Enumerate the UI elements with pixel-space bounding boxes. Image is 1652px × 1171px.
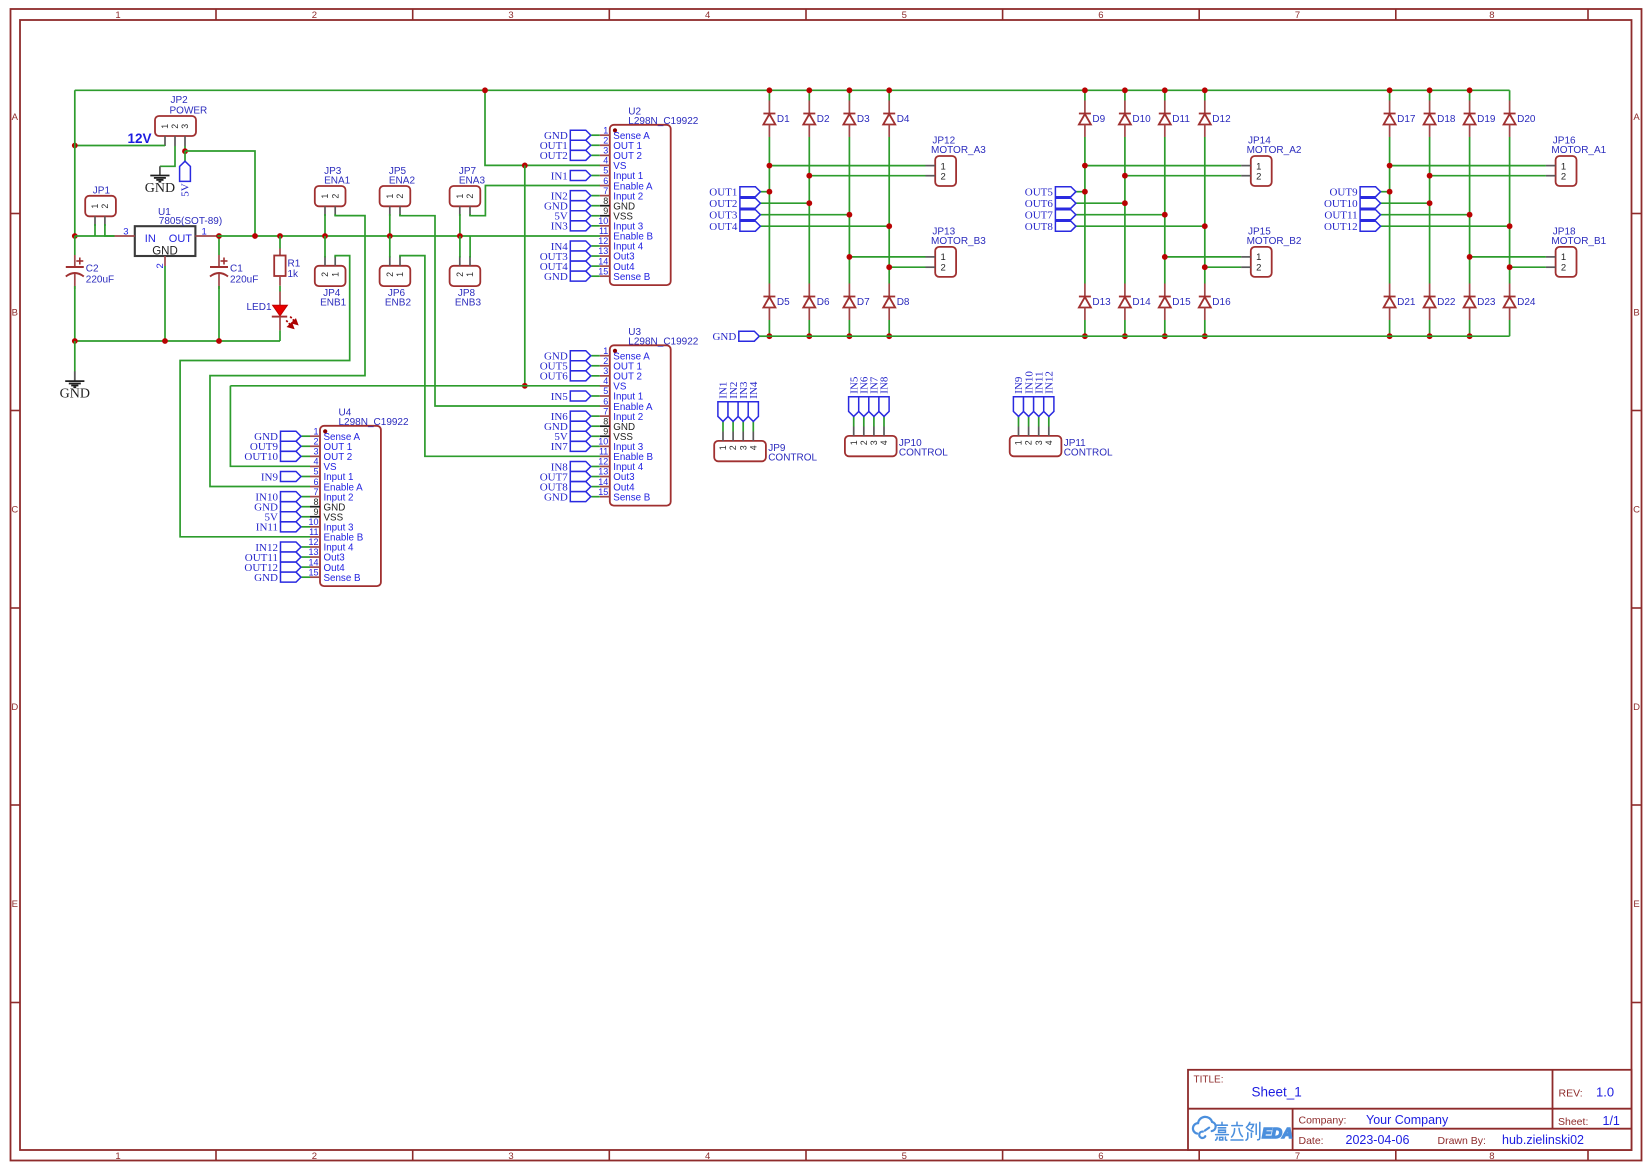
svg-text:IN12: IN12	[1044, 371, 1056, 394]
diode D18	[1429, 101, 1431, 114]
wire	[760, 225, 889, 227]
wire	[760, 191, 769, 193]
wire	[1028, 427, 1030, 436]
svg-text:1: 1	[395, 272, 405, 277]
connector JP13 MOTOR_B3	[935, 247, 956, 277]
wire	[1125, 175, 1241, 177]
junction	[1202, 264, 1208, 270]
junction	[1467, 254, 1473, 260]
wire	[760, 214, 849, 216]
junction	[1387, 189, 1393, 195]
svg-text:12: 12	[308, 537, 318, 547]
svg-text:1: 1	[455, 194, 465, 199]
svg-text:2: 2	[385, 272, 395, 277]
pin 4 of U3	[600, 385, 610, 387]
node GND	[570, 201, 591, 211]
diode D24	[1509, 284, 1511, 297]
svg-text:ENA1: ENA1	[324, 175, 351, 186]
svg-text:ENB3: ENB3	[455, 298, 482, 309]
capacitor C2	[74, 255, 76, 267]
svg-text:Date:: Date:	[1299, 1135, 1324, 1147]
svg-text:D22: D22	[1437, 297, 1456, 308]
node IN11	[1034, 397, 1044, 417]
svg-text:5: 5	[603, 386, 608, 396]
junction	[1162, 333, 1168, 339]
svg-text:3: 3	[123, 226, 128, 237]
wire	[591, 365, 600, 367]
wire	[591, 275, 600, 277]
wire	[185, 151, 255, 236]
wire	[1076, 191, 1085, 193]
diode D23	[1469, 284, 1471, 297]
ground	[150, 175, 169, 177]
junction	[387, 233, 393, 239]
svg-text:JP1: JP1	[93, 185, 111, 196]
connector JP4 ENB1	[315, 266, 346, 286]
wire	[888, 320, 890, 336]
junction	[252, 233, 258, 239]
pin 1 of U2	[600, 134, 610, 136]
node OUT7	[1055, 210, 1076, 220]
wire	[302, 475, 311, 477]
junction	[72, 233, 78, 239]
wire	[1429, 90, 1431, 100]
svg-text:7: 7	[313, 487, 318, 497]
wire	[459, 236, 461, 258]
node IN7	[570, 441, 591, 451]
svg-text:4: 4	[879, 440, 889, 445]
wire	[1204, 137, 1206, 284]
node IN6	[859, 397, 869, 417]
wire	[808, 320, 810, 336]
svg-text:ENA2: ENA2	[389, 175, 416, 186]
junction	[216, 338, 222, 344]
node OUT3	[570, 251, 591, 261]
svg-text:LED1: LED1	[246, 302, 271, 313]
pin 11 of U2	[600, 235, 610, 237]
svg-text:8: 8	[1489, 1151, 1494, 1162]
wire	[302, 435, 311, 437]
wire	[302, 455, 311, 457]
IC U3 L298N_C19922	[610, 345, 671, 505]
wire	[1164, 90, 1166, 100]
svg-text:D8: D8	[897, 297, 910, 308]
svg-text:8: 8	[603, 416, 608, 426]
wire 12V to U2 VS	[485, 90, 600, 165]
svg-text:1: 1	[385, 194, 395, 199]
wire	[1165, 256, 1241, 258]
wire	[74, 371, 76, 381]
connector JP12 MOTOR_A3	[935, 156, 956, 186]
svg-text:D9: D9	[1092, 114, 1105, 125]
svg-text:3: 3	[869, 440, 879, 445]
svg-text:GND: GND	[544, 271, 568, 283]
connector JP5 ENA2	[380, 186, 411, 206]
wire	[591, 435, 600, 437]
pin 6 of U3	[600, 405, 610, 407]
svg-text:3: 3	[1034, 440, 1044, 445]
node 5V	[180, 161, 191, 181]
diode D9	[1084, 101, 1086, 114]
wire	[853, 427, 855, 436]
svg-text:4: 4	[1044, 440, 1054, 445]
wire	[302, 566, 311, 568]
wire	[591, 486, 600, 488]
wire	[591, 144, 600, 146]
svg-text:OUT5: OUT5	[1025, 187, 1054, 199]
svg-text:IN8: IN8	[879, 376, 891, 394]
wire	[1164, 320, 1166, 336]
svg-text:2: 2	[465, 194, 475, 199]
svg-text:IN1: IN1	[551, 170, 568, 182]
node IN7	[869, 397, 879, 417]
wire	[1076, 214, 1165, 216]
wire	[848, 320, 850, 336]
junction	[1467, 87, 1473, 93]
svg-text:1: 1	[465, 272, 475, 277]
wire	[302, 496, 311, 498]
wire	[1509, 320, 1511, 336]
svg-text:A: A	[1633, 112, 1640, 123]
junction	[1122, 173, 1128, 179]
svg-text:D6: D6	[817, 297, 830, 308]
wire	[591, 255, 600, 257]
svg-text:1: 1	[320, 194, 330, 199]
wire	[1204, 90, 1206, 100]
svg-text:D3: D3	[857, 114, 870, 125]
pin 13 of U4	[310, 556, 320, 558]
wire	[591, 375, 600, 377]
wire	[591, 445, 600, 447]
svg-text:C1: C1	[230, 264, 243, 275]
svg-text:IN11: IN11	[256, 522, 278, 534]
junction	[1082, 189, 1088, 195]
IC U2 L298N_C19922	[610, 125, 671, 285]
node OUT6	[570, 371, 591, 381]
wire	[809, 175, 925, 177]
svg-text:3: 3	[738, 445, 748, 450]
junction	[1507, 223, 1513, 229]
wire ENB2 to U3	[400, 256, 600, 457]
svg-text:7: 7	[1295, 10, 1300, 21]
wire	[302, 526, 311, 528]
wire	[218, 236, 220, 255]
wire	[279, 330, 281, 341]
svg-text:CONTROL: CONTROL	[768, 453, 817, 464]
junction	[1202, 223, 1208, 229]
wire ENA3 to U2	[470, 186, 600, 216]
svg-text:2: 2	[395, 194, 405, 199]
svg-text:3: 3	[180, 124, 190, 129]
svg-text:Sheet:: Sheet:	[1558, 1116, 1588, 1128]
junction	[1387, 87, 1393, 93]
junction	[1162, 254, 1168, 260]
svg-text:2: 2	[941, 262, 946, 273]
svg-text:2: 2	[941, 172, 946, 183]
wire	[848, 137, 850, 284]
svg-text:1.0: 1.0	[1596, 1085, 1614, 1100]
wire	[863, 427, 865, 436]
pin 4 of U2	[600, 164, 610, 166]
wire	[1469, 137, 1471, 284]
junction	[767, 189, 773, 195]
wire	[1470, 256, 1546, 258]
svg-text:D17: D17	[1397, 114, 1416, 125]
wire	[591, 465, 600, 467]
node IN1	[570, 170, 591, 180]
svg-text:1: 1	[603, 125, 608, 135]
junction	[457, 233, 463, 239]
svg-text:D15: D15	[1172, 297, 1191, 308]
junction	[72, 338, 78, 344]
pin 4 of U4	[310, 465, 320, 467]
svg-text:D21: D21	[1397, 297, 1416, 308]
IC U4 L298N_C19922	[320, 426, 381, 586]
junction	[482, 87, 488, 93]
svg-text:R1: R1	[288, 259, 301, 270]
svg-text:2: 2	[170, 124, 180, 129]
pin 1 of U4	[310, 435, 320, 437]
svg-text:MOTOR_A1: MOTOR_A1	[1551, 145, 1606, 156]
wire	[105, 224, 115, 236]
wire	[591, 134, 600, 136]
node IN8	[570, 461, 591, 471]
node OUT1	[740, 187, 761, 197]
node OUT2	[570, 150, 591, 160]
ground	[65, 380, 84, 382]
junction	[886, 333, 892, 339]
svg-text:2: 2	[330, 194, 340, 199]
diode D8	[888, 284, 890, 297]
diode D5	[768, 284, 770, 297]
svg-text:2: 2	[455, 272, 465, 277]
svg-text:D5: D5	[777, 297, 790, 308]
junction	[322, 233, 328, 239]
junction	[1427, 333, 1433, 339]
node OUT11	[1360, 210, 1381, 220]
connector JP2 POWER	[155, 116, 196, 136]
svg-text:OUT11: OUT11	[1324, 210, 1357, 222]
wire ENB3	[469, 236, 471, 258]
junction	[1202, 333, 1208, 339]
svg-text:GND: GND	[254, 572, 278, 584]
wire	[760, 202, 809, 204]
svg-text:5: 5	[902, 10, 907, 21]
node OUT11	[281, 552, 302, 562]
pin 9 of U3	[600, 435, 610, 437]
wire	[1390, 165, 1546, 167]
connector JP3 ENA1	[315, 186, 346, 206]
pin 7 of U2	[600, 195, 610, 197]
pin 14 of U4	[310, 566, 320, 568]
junction	[847, 212, 853, 218]
svg-text:3: 3	[603, 366, 608, 376]
junction	[767, 333, 773, 339]
svg-text:5: 5	[603, 166, 608, 176]
junction	[277, 233, 283, 239]
svg-text:ENB2: ENB2	[385, 298, 412, 309]
svg-text:14: 14	[598, 477, 608, 487]
svg-text:GND: GND	[145, 181, 175, 196]
wire	[591, 174, 600, 176]
svg-text:6: 6	[1098, 10, 1103, 21]
wire ENA1 to U4	[210, 214, 365, 487]
diode D16	[1204, 284, 1206, 297]
wire	[768, 137, 770, 284]
diode D2	[808, 101, 810, 114]
svg-text:OUT7: OUT7	[1025, 210, 1054, 222]
junction	[767, 87, 773, 93]
svg-text:1: 1	[115, 10, 120, 21]
wire	[1469, 320, 1471, 336]
svg-text:4: 4	[603, 376, 608, 386]
svg-text:D19: D19	[1477, 114, 1496, 125]
diode D22	[1429, 284, 1431, 297]
pin 14 of U2	[600, 265, 610, 267]
svg-text:MOTOR_A3: MOTOR_A3	[931, 145, 986, 156]
wire	[873, 427, 875, 436]
svg-text:5: 5	[902, 1151, 907, 1162]
wire 12V to U4 VS	[230, 386, 310, 467]
svg-text:C2: C2	[86, 264, 99, 275]
wire	[722, 432, 724, 441]
wire	[591, 476, 600, 478]
junction	[1467, 212, 1473, 218]
svg-text:D20: D20	[1517, 114, 1536, 125]
svg-text:REV:: REV:	[1559, 1088, 1583, 1100]
svg-text:D1: D1	[777, 114, 790, 125]
connector JP8 ENB3	[450, 266, 481, 286]
pin 3 of U2	[600, 154, 610, 156]
svg-text:8: 8	[1489, 10, 1494, 21]
junction	[1122, 333, 1128, 339]
wire	[591, 154, 600, 156]
wire	[1084, 90, 1086, 100]
wire	[389, 214, 391, 236]
junction	[162, 338, 168, 344]
svg-text:ENB1: ENB1	[320, 298, 347, 309]
node OUT8	[1055, 221, 1076, 231]
svg-text:L298N_C19922: L298N_C19922	[339, 417, 409, 428]
wire	[184, 151, 186, 162]
wire	[302, 506, 311, 508]
junction	[1427, 87, 1433, 93]
pin 6 of U2	[600, 185, 610, 187]
svg-text:11: 11	[599, 447, 608, 457]
svg-text:Sense B: Sense B	[613, 272, 651, 283]
wire	[218, 286, 220, 341]
node IN8	[879, 397, 889, 417]
svg-text:CONTROL: CONTROL	[1064, 448, 1113, 459]
wire ENA2 to U3	[400, 214, 600, 406]
connector JP16 MOTOR_A1	[1556, 156, 1577, 186]
svg-text:1: 1	[330, 272, 340, 277]
wire	[591, 496, 600, 498]
node IN12	[1044, 397, 1054, 417]
node GND	[281, 431, 302, 441]
wire	[459, 214, 461, 236]
svg-text:Company:: Company:	[1299, 1114, 1347, 1126]
svg-text:3: 3	[508, 10, 513, 21]
junction	[1427, 200, 1433, 206]
pin 5 of U2	[600, 174, 610, 176]
LED LED1	[279, 292, 281, 306]
svg-text:9: 9	[313, 507, 318, 517]
svg-text:7: 7	[603, 186, 608, 196]
diode D20	[1509, 101, 1511, 114]
node OUT9	[281, 441, 302, 451]
pin 10 of U3	[600, 445, 610, 447]
diode D11	[1164, 101, 1166, 114]
junction	[1202, 87, 1208, 93]
junction	[72, 143, 78, 149]
svg-text:GND: GND	[544, 491, 568, 503]
diode D7	[848, 284, 850, 297]
wire	[74, 286, 76, 341]
pin 11 of U4	[310, 536, 320, 538]
diode D15	[1164, 284, 1166, 297]
wire ENB1 to U4	[180, 256, 350, 537]
svg-text:OUT12: OUT12	[1324, 221, 1358, 233]
svg-text:IN3: IN3	[551, 221, 569, 233]
svg-text:MOTOR_A2: MOTOR_A2	[1247, 145, 1302, 156]
junction	[1387, 333, 1393, 339]
pin 7 of U4	[310, 496, 320, 498]
node OUT5	[1055, 187, 1076, 197]
svg-text:13: 13	[598, 246, 608, 256]
pin 2 of U4	[310, 445, 320, 447]
wire	[1038, 427, 1040, 436]
pin 12 of U2	[600, 245, 610, 247]
wire	[1381, 191, 1390, 193]
node OUT10	[281, 451, 302, 461]
junction	[1162, 212, 1168, 218]
svg-text:OUT1: OUT1	[709, 187, 737, 199]
pin 11 of U3	[600, 455, 610, 457]
wire	[849, 256, 925, 258]
svg-text:8: 8	[313, 497, 318, 507]
svg-text:D: D	[11, 702, 18, 713]
diode D4	[888, 101, 890, 114]
node OUT2	[740, 198, 761, 208]
pin 15 of U4	[310, 576, 320, 578]
svg-text:MOTOR_B3: MOTOR_B3	[931, 236, 986, 247]
svg-text:220uF: 220uF	[86, 275, 114, 286]
wire	[591, 215, 600, 217]
pin 2 of U2	[600, 144, 610, 146]
svg-text:2: 2	[603, 135, 608, 145]
wire	[1510, 266, 1546, 268]
junction	[1122, 87, 1128, 93]
svg-text:OUT2: OUT2	[540, 150, 568, 162]
wire	[1381, 214, 1470, 216]
svg-text:D: D	[1633, 702, 1640, 713]
wire	[1084, 320, 1086, 336]
svg-text:E: E	[12, 899, 18, 910]
svg-text:220uF: 220uF	[230, 275, 258, 286]
svg-text:8: 8	[603, 196, 608, 206]
junction	[522, 383, 528, 389]
wire	[74, 341, 76, 372]
regulator U1 7805	[135, 226, 196, 256]
svg-text:D11: D11	[1172, 114, 1190, 125]
wire 5V rail	[217, 235, 600, 237]
wire	[75, 235, 115, 237]
node OUT7	[570, 472, 591, 482]
svg-text:GND: GND	[60, 387, 90, 402]
svg-text:7: 7	[603, 406, 608, 416]
node GND	[281, 572, 302, 582]
